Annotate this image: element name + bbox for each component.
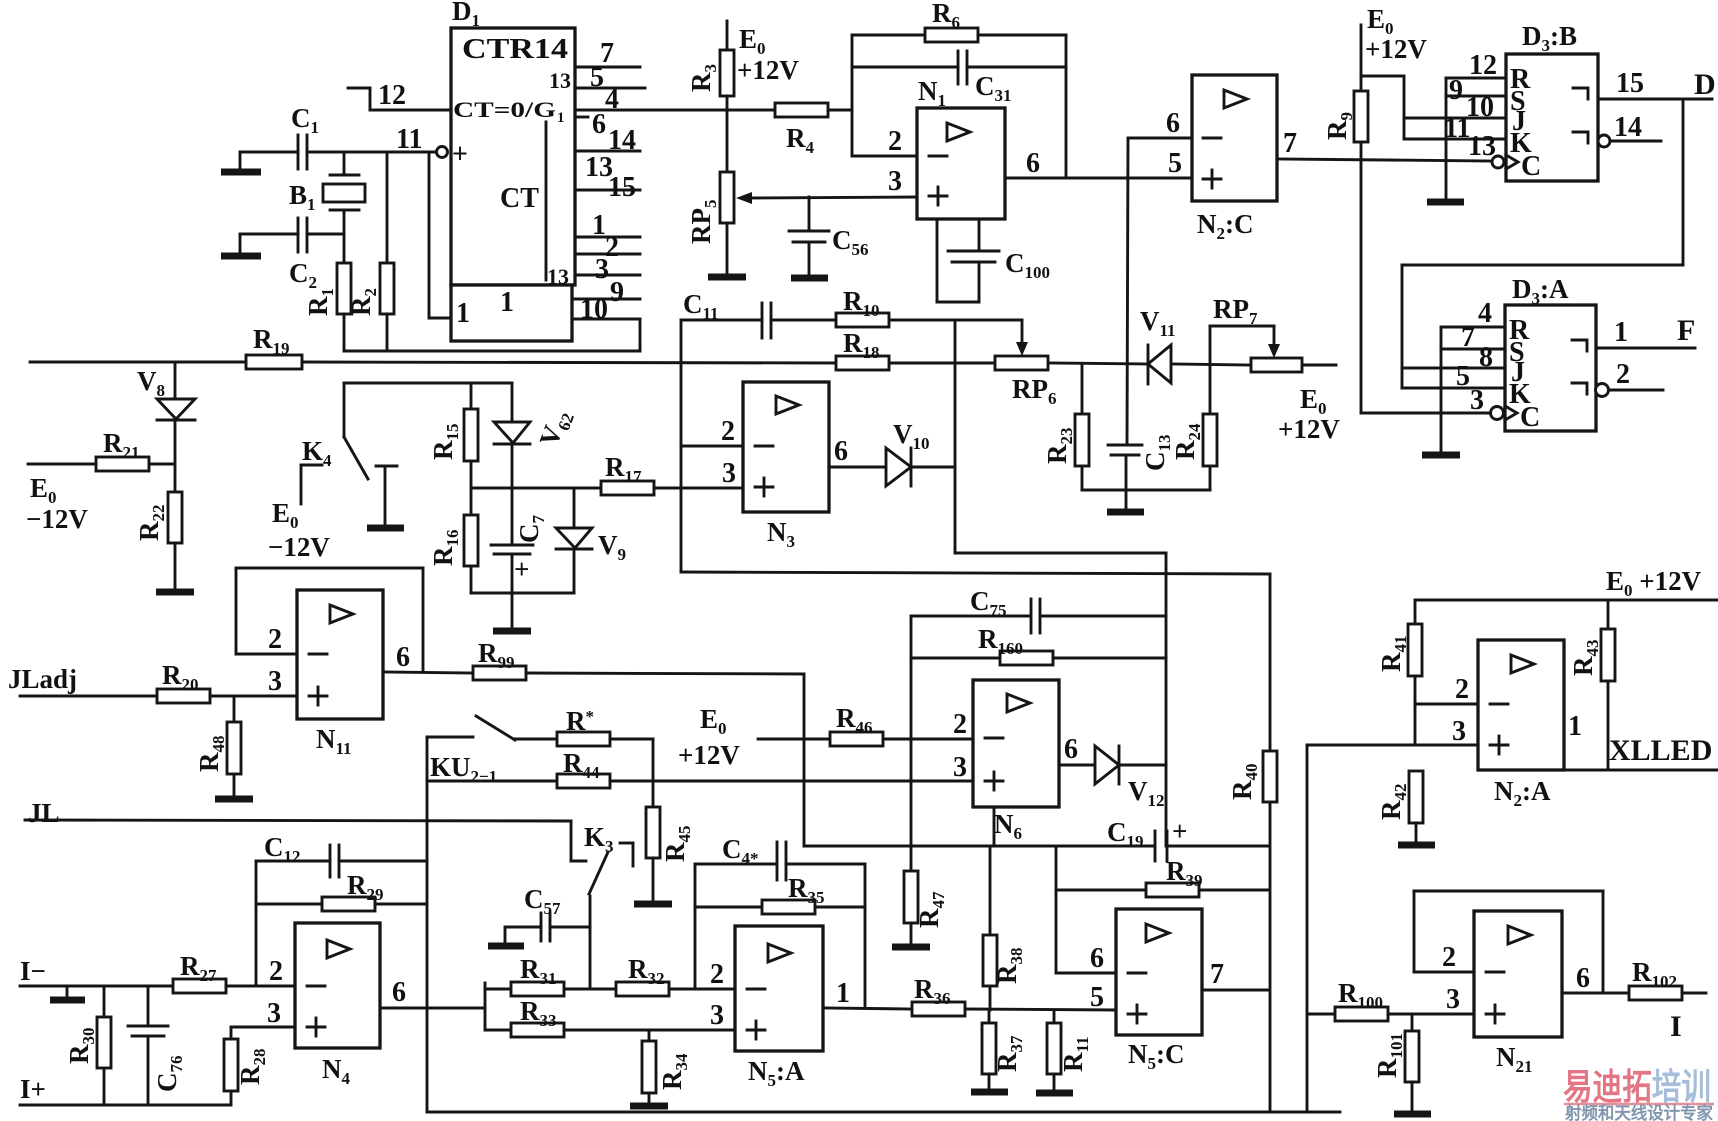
svg-text:14: 14 xyxy=(1614,112,1642,143)
svg-text:3: 3 xyxy=(710,1000,724,1031)
resistor R99 xyxy=(473,638,804,680)
wire D3:A Qbar pin2 xyxy=(1596,359,1664,397)
wire D3:B Q pin15 output D xyxy=(1598,68,1716,101)
diode V12 xyxy=(1059,734,1166,810)
wire N2:A pin2 xyxy=(1415,674,1478,705)
svg-text:1: 1 xyxy=(557,110,565,126)
svg-text:2: 2 xyxy=(721,416,735,447)
resistor R38 xyxy=(983,846,1026,1010)
svg-text:6: 6 xyxy=(1026,148,1040,179)
diode V9 xyxy=(556,488,626,593)
main bus wire y=362 xyxy=(30,362,1336,365)
svg-text:CT=0/G: CT=0/G xyxy=(453,97,556,122)
wire N21 feedback loop xyxy=(1414,891,1603,993)
wire N1 feedback left vertical xyxy=(851,35,854,156)
resistor R40 xyxy=(1227,574,1277,1112)
wire N3 pin2 xyxy=(681,416,743,447)
label E0 +12V at RP7 xyxy=(1278,384,1340,444)
ground at R37 xyxy=(971,1089,1008,1096)
wire oscillator bottom rail xyxy=(344,350,640,353)
pin 5 stub xyxy=(575,62,645,93)
potentiometer RP5 xyxy=(686,110,917,276)
op-amp N21 xyxy=(1474,911,1562,1076)
svg-text:2: 2 xyxy=(1455,674,1469,705)
resistor R10 xyxy=(771,286,1022,327)
resistor R18 on bus xyxy=(836,328,889,370)
resistor R102 xyxy=(1629,957,1706,1000)
wire N5:C pin7 output xyxy=(1202,959,1268,990)
svg-text:3: 3 xyxy=(1452,716,1466,747)
svg-text:5: 5 xyxy=(1456,361,1470,392)
svg-text:N5:A: N5:A xyxy=(748,1056,805,1090)
ground at C2 xyxy=(221,234,261,256)
op-amp N5:A xyxy=(710,926,823,1090)
svg-text:2: 2 xyxy=(888,126,902,157)
svg-text:1: 1 xyxy=(836,978,850,1009)
svg-text:XLLED: XLLED xyxy=(1609,734,1712,767)
ground below C7 xyxy=(493,593,531,631)
svg-text:1: 1 xyxy=(1568,711,1582,742)
svg-text:I+: I+ xyxy=(20,1074,46,1104)
node vertical from pin6 corner down to C13 xyxy=(1127,138,1128,445)
svg-text:F: F xyxy=(1677,314,1695,347)
svg-text:10: 10 xyxy=(580,294,608,325)
capacitor C31 feedback xyxy=(852,51,1066,105)
svg-text:4: 4 xyxy=(1478,298,1492,329)
pin 15 stub xyxy=(575,172,640,203)
potentiometer RP7 xyxy=(1210,294,1302,372)
ground at K4 xyxy=(367,525,404,532)
svg-text:6: 6 xyxy=(1090,943,1104,974)
resistor R28 xyxy=(224,1027,295,1105)
pin 2 stub xyxy=(575,232,640,263)
potentiometer RP6 xyxy=(995,320,1057,408)
op-amp N1 xyxy=(917,76,1005,219)
svg-text:N5:C: N5:C xyxy=(1128,1039,1185,1073)
wire V10 node line y553 xyxy=(955,552,1166,555)
ground rail R S of D3:B xyxy=(1427,78,1464,202)
wire feedback node vertical x1166 xyxy=(1165,553,1168,846)
svg-text:13: 13 xyxy=(547,264,569,289)
watermark xyxy=(1563,1066,1714,1121)
diode V11 on bus xyxy=(1140,306,1176,384)
pin 6 stub xyxy=(575,109,606,140)
resistor R16 xyxy=(428,488,478,593)
wire clock feed down to D3:A xyxy=(1361,160,1491,413)
wire cluster bottom rail xyxy=(471,592,574,595)
resistor R23 xyxy=(1042,364,1089,490)
svg-text:+: + xyxy=(1172,816,1187,846)
resistor R47 xyxy=(904,871,948,947)
vertical from C11 down through bus to N3 area xyxy=(680,320,683,572)
wire R15/V62 junction row xyxy=(471,487,601,490)
resistor R46 xyxy=(775,703,973,746)
resistor R42 xyxy=(1376,771,1423,845)
wire N1 pin2 xyxy=(852,126,917,157)
wire N2:A output pin1 XLLED xyxy=(1564,711,1718,770)
svg-text:−12V: −12V xyxy=(26,504,88,534)
svg-text:+12V: +12V xyxy=(737,55,799,85)
wire node line y846 right segment xyxy=(1167,845,1268,848)
svg-text:9: 9 xyxy=(610,277,624,308)
resistor R44 xyxy=(427,748,973,788)
op-amp N11 xyxy=(297,590,383,758)
label E0 +12V at R3 xyxy=(737,24,799,85)
node 11 clock with bubble xyxy=(396,124,472,318)
svg-text:3: 3 xyxy=(888,166,902,197)
svg-text:3: 3 xyxy=(953,752,967,783)
ground at C56 xyxy=(791,275,828,282)
svg-text:9: 9 xyxy=(1449,75,1463,106)
svg-text:12: 12 xyxy=(378,80,406,111)
svg-text:3: 3 xyxy=(267,998,281,1029)
crystal B1 xyxy=(289,152,365,234)
resistor R31 xyxy=(485,954,616,996)
label E0 +12V rail top right xyxy=(1606,566,1702,600)
resistor R30 xyxy=(64,986,111,1105)
wire pin12 input xyxy=(348,80,451,111)
resistor R34 xyxy=(642,1030,691,1106)
svg-text:C: C xyxy=(1520,402,1540,433)
op-amp N2:A xyxy=(1478,640,1564,810)
label E0 +12V at R46 xyxy=(678,704,775,770)
wire N11 output pin6 xyxy=(383,642,473,673)
svg-text:5: 5 xyxy=(1090,982,1104,1013)
wire node line y846 left segment xyxy=(804,845,1155,848)
capacitor C75 feedback xyxy=(911,586,1166,633)
svg-text:I: I xyxy=(1670,1010,1682,1043)
switch K2 contact xyxy=(427,716,515,740)
pin 10 line xyxy=(575,294,640,351)
svg-text:6: 6 xyxy=(834,436,848,467)
wire N11 feedback loop xyxy=(236,568,423,672)
resistor R19 on bus xyxy=(246,324,302,369)
op-amp N5:C xyxy=(1116,909,1202,1073)
wire N1 output xyxy=(1005,148,1192,179)
svg-text:3: 3 xyxy=(1470,385,1484,416)
svg-text:2: 2 xyxy=(953,709,967,740)
svg-text:1: 1 xyxy=(500,287,514,318)
capacitor C11 xyxy=(681,289,771,338)
wire C1 to clock node xyxy=(307,151,436,154)
svg-text:7: 7 xyxy=(1461,322,1475,353)
resistor R29 feedback xyxy=(256,861,427,986)
svg-text:1: 1 xyxy=(1614,317,1628,348)
resistor R45 xyxy=(646,781,694,904)
svg-text:N2:A: N2:A xyxy=(1494,776,1551,810)
wire R31 R33 left vertical xyxy=(484,983,487,1030)
resistor R4 xyxy=(727,103,852,157)
wire N1 feedback right vertical xyxy=(1065,35,1068,178)
op-amp N6 xyxy=(953,680,1059,843)
wire D3:A S pin7 xyxy=(1441,322,1505,353)
resistor R20 xyxy=(20,660,297,703)
wire D3:B J pin10 xyxy=(1404,92,1506,123)
op-amp N3 xyxy=(743,382,829,551)
capacitor C100 below N1 xyxy=(937,219,1050,302)
resistor R101 xyxy=(1372,1014,1419,1114)
wire D output feedback to D3:A xyxy=(1402,99,1683,388)
svg-text:JL: JL xyxy=(28,798,60,828)
wire bottom bus xyxy=(427,1111,1340,1114)
svg-text:N2:C: N2:C xyxy=(1197,209,1254,243)
ground at R48 xyxy=(215,796,253,803)
resistor R3 xyxy=(686,21,734,110)
wire D3:A Q pin1 output F xyxy=(1596,314,1695,348)
resistor R21 xyxy=(28,428,175,471)
ground at R101 xyxy=(1394,1111,1431,1118)
resistor R33 xyxy=(485,996,735,1037)
wire D3:A R pin4 xyxy=(1441,298,1505,329)
pin 14 stub xyxy=(575,125,640,156)
svg-text:E0 +12V: E0 +12V xyxy=(1606,566,1702,600)
resistor R1 xyxy=(303,234,351,351)
svg-text:13: 13 xyxy=(549,68,571,93)
op-amp N4 xyxy=(267,923,380,1088)
svg-text:射频和天线设计专家: 射频和天线设计专家 xyxy=(1564,1103,1713,1121)
wire KU vertical rail xyxy=(426,737,429,1112)
flip-flop D3:B xyxy=(1506,21,1598,182)
pin 4 line xyxy=(575,84,727,115)
wire D3:A K pin5 xyxy=(1402,361,1505,392)
op-amp N2:C xyxy=(1192,75,1277,243)
resistor R22 xyxy=(134,464,182,592)
capacitor C12 feedback xyxy=(256,832,427,877)
wire N5:C pin6 xyxy=(1056,846,1116,974)
resistor R35 feedback xyxy=(695,864,865,1008)
capacitor C19 xyxy=(1107,816,1187,861)
wire N3 node line y572 to R40 xyxy=(681,572,1270,574)
wire D3:B R pin12 xyxy=(1446,50,1506,81)
svg-text:2: 2 xyxy=(1442,942,1456,973)
diode V8 xyxy=(137,362,195,464)
svg-text:3: 3 xyxy=(595,254,609,285)
wire I+ line xyxy=(20,1104,231,1107)
svg-text:CTR14: CTR14 xyxy=(462,34,568,65)
svg-text:+12V: +12V xyxy=(1278,414,1340,444)
resistor R24 xyxy=(1170,365,1217,490)
wire D3:A J pin8 xyxy=(1402,342,1505,373)
svg-text:4: 4 xyxy=(605,84,619,115)
resistor R41 xyxy=(1376,600,1422,745)
svg-text:+12V: +12V xyxy=(1365,34,1427,64)
svg-text:D: D xyxy=(1694,68,1716,101)
flip-flop D3:A xyxy=(1505,274,1596,433)
pin 1 stub xyxy=(575,210,640,241)
ground at C13 rail xyxy=(1107,490,1144,512)
svg-text:2: 2 xyxy=(268,624,282,655)
resistor R36 xyxy=(912,974,1116,1016)
wire R99 output drop xyxy=(803,674,806,846)
resistor R11 xyxy=(1047,1010,1092,1093)
svg-text:D3:A: D3:A xyxy=(1512,274,1569,308)
svg-text:−12V: −12V xyxy=(268,532,330,562)
wire R23 C13 R24 bottom rail xyxy=(1082,489,1210,492)
wire N6 bottom to node xyxy=(993,807,996,846)
svg-text:D3:B: D3:B xyxy=(1522,21,1577,55)
svg-text:6: 6 xyxy=(396,642,410,673)
ground at R11 xyxy=(1036,1090,1073,1097)
svg-text:6: 6 xyxy=(1576,963,1590,994)
resistor R6 feedback xyxy=(852,0,1066,42)
ground at R34 xyxy=(630,1103,668,1110)
wire pin3 vertical down to bottom xyxy=(1306,745,1309,1112)
pin 9 stub xyxy=(575,277,640,308)
ground at R45 xyxy=(634,901,672,908)
diode V10 xyxy=(829,419,955,486)
wire D3:B Qbar pin14 xyxy=(1598,112,1661,147)
ground at RP5 xyxy=(708,274,746,281)
resistor R2 xyxy=(346,152,394,351)
resistor R37 xyxy=(982,1010,1026,1092)
wire D3:B S pin9 xyxy=(1446,75,1506,106)
resistor Rstar xyxy=(515,706,653,781)
svg-text:13: 13 xyxy=(1468,131,1496,162)
wire K4 top rail xyxy=(344,382,512,385)
svg-text:15: 15 xyxy=(1616,68,1644,99)
capacitor C57 xyxy=(505,884,590,946)
ground at R22 xyxy=(156,589,194,596)
resistor R27 xyxy=(173,951,295,993)
resistor R15 xyxy=(428,383,478,488)
capacitor C7 xyxy=(491,488,548,593)
ground at I- xyxy=(50,986,85,1000)
svg-text:I−: I− xyxy=(20,956,46,986)
wire C75 R160 left vertical to R47 xyxy=(910,616,913,871)
resistor R39 xyxy=(1056,856,1268,897)
svg-text:3: 3 xyxy=(722,458,736,489)
svg-text:2: 2 xyxy=(1616,359,1630,390)
svg-text:8: 8 xyxy=(1479,342,1493,373)
svg-text:12: 12 xyxy=(1469,50,1497,81)
resistor R17 xyxy=(601,452,743,495)
svg-text:5: 5 xyxy=(590,62,604,93)
resistor R160 feedback xyxy=(911,624,1166,665)
wire +12V rail xyxy=(1415,599,1718,602)
switch K4 xyxy=(301,383,397,526)
label E0 -12V at K4 xyxy=(268,498,330,562)
capacitor C2 xyxy=(240,218,344,292)
ground at R47 xyxy=(892,944,930,951)
IC D1 CTR14 xyxy=(451,0,575,341)
switch K3 xyxy=(571,821,633,989)
wire I- line xyxy=(20,985,173,988)
svg-text:2: 2 xyxy=(710,959,724,990)
capacitor C1 xyxy=(240,103,319,169)
wire N21 output pin6 xyxy=(1562,963,1629,994)
svg-text:7: 7 xyxy=(1283,128,1297,159)
wire JL line xyxy=(25,820,571,821)
wire N2:C pin6 xyxy=(1128,108,1192,139)
svg-text:6: 6 xyxy=(1166,108,1180,139)
svg-text:6: 6 xyxy=(392,977,406,1008)
wire E0 branch to J K of D3:B xyxy=(1361,76,1404,139)
ground rail R S of D3:A xyxy=(1422,327,1460,455)
wire N2:C pin7 output xyxy=(1277,128,1493,161)
wire D3:B K pin11 xyxy=(1404,113,1506,144)
svg-text:+: + xyxy=(452,139,468,170)
svg-text:2: 2 xyxy=(269,956,283,987)
label E0 -12V left xyxy=(26,473,88,534)
resistor R48 xyxy=(194,696,241,799)
diode V62 xyxy=(494,383,578,488)
svg-text:1: 1 xyxy=(456,298,470,329)
svg-text:易迪拓培训: 易迪拓培训 xyxy=(1563,1066,1711,1107)
svg-text:11: 11 xyxy=(1444,113,1470,144)
pin 7 stub xyxy=(575,38,640,69)
wire N5:A output pin1 xyxy=(823,978,912,1009)
svg-text:+12V: +12V xyxy=(678,740,740,770)
capacitor C56 xyxy=(789,197,869,277)
svg-text:6: 6 xyxy=(1064,734,1078,765)
capacitor C4* feedback xyxy=(695,834,865,880)
svg-text:11: 11 xyxy=(396,124,422,155)
svg-text:15: 15 xyxy=(608,172,636,203)
capacitor C76 xyxy=(128,986,186,1105)
label E0 +12V at R9 xyxy=(1365,4,1427,64)
svg-text:1: 1 xyxy=(592,210,606,241)
svg-text:3: 3 xyxy=(268,666,282,697)
svg-text:CT: CT xyxy=(500,183,539,214)
clock bubble D3:A xyxy=(1491,407,1504,420)
svg-text:6: 6 xyxy=(592,109,606,140)
resistor R9 xyxy=(1322,25,1368,160)
capacitor C13 xyxy=(1108,435,1174,491)
ground at R42 xyxy=(1398,842,1435,849)
svg-text:7: 7 xyxy=(1210,959,1224,990)
ground at C57 xyxy=(488,943,524,950)
resistor R43 xyxy=(1568,600,1615,770)
resistor R32 xyxy=(616,954,735,996)
svg-text:5: 5 xyxy=(1168,148,1182,179)
svg-text:3: 3 xyxy=(1446,984,1460,1015)
wire N4 output pin6 xyxy=(380,977,485,1008)
vertical from R10 RP6 node down xyxy=(954,320,957,553)
svg-text:JLadj: JLadj xyxy=(8,664,77,694)
ground at C1 xyxy=(221,152,261,172)
resistor R100 xyxy=(1307,978,1474,1021)
clock bubble D3:B xyxy=(1492,156,1504,168)
pin 3 stub xyxy=(575,254,640,285)
svg-text:+: + xyxy=(514,554,529,584)
svg-text:C: C xyxy=(1521,151,1541,182)
wire N2:A pin3 xyxy=(1307,716,1478,747)
